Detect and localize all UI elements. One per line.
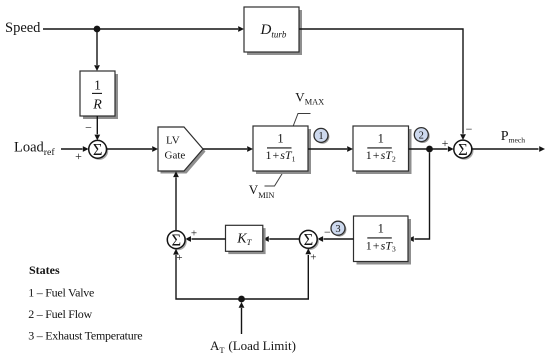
callout line V_MIN xyxy=(265,172,284,187)
svg-text:+: + xyxy=(191,227,197,239)
svg-text:Loadref: Loadref xyxy=(14,140,55,158)
state badge 2 xyxy=(414,128,429,143)
wire summer S1 to LV gate xyxy=(107,146,159,152)
svg-text:1: 1 xyxy=(378,131,384,145)
svg-text:LV: LV xyxy=(166,135,180,147)
svg-text:Σ: Σ xyxy=(304,230,314,249)
wire summer S3 to block KT xyxy=(263,236,299,242)
wire block T1 to block T2 xyxy=(308,146,353,152)
svg-text:1+sT2: 1+sT2 xyxy=(366,148,396,163)
junction dot load limit xyxy=(238,296,245,303)
svg-text:States: States xyxy=(29,263,60,277)
svg-text:Pmech: Pmech xyxy=(501,129,525,145)
svg-text:1: 1 xyxy=(94,78,101,93)
svg-text:2: 2 xyxy=(419,130,424,141)
svg-text:1: 1 xyxy=(378,221,384,235)
svg-text:2 – Fuel Flow: 2 – Fuel Flow xyxy=(28,307,92,321)
svg-text:AT(Load Limit): AT(Load Limit) xyxy=(210,338,296,355)
callout line V_MAX xyxy=(293,114,311,127)
svg-text:Speed: Speed xyxy=(5,20,41,36)
wire AT input up to rail xyxy=(239,302,245,334)
summer S2 xyxy=(454,140,474,160)
svg-text:+: + xyxy=(75,149,82,163)
block 1/(1+sT3) xyxy=(354,216,412,265)
wire Dturb to summer S2 xyxy=(299,29,466,140)
svg-text:Gate: Gate xyxy=(165,150,186,162)
wire load limit rail xyxy=(173,248,311,299)
block 1/R xyxy=(80,71,118,119)
svg-text:R: R xyxy=(92,98,102,113)
wire block T2 to summer S2 xyxy=(409,146,454,152)
junction dot speed branch xyxy=(94,26,101,33)
svg-text:3: 3 xyxy=(335,224,340,235)
wire 1/R to summer S1 xyxy=(94,116,100,140)
svg-text:1+sT3: 1+sT3 xyxy=(366,238,396,253)
svg-text:−: − xyxy=(466,122,473,136)
wire summer S2 to P_mech output xyxy=(472,146,545,152)
svg-text:3 – Exhaust Temperature: 3 – Exhaust Temperature xyxy=(28,328,142,342)
svg-text:1: 1 xyxy=(318,131,323,142)
summer S1 xyxy=(89,140,109,160)
wire fuel flow feedback down into block T3 xyxy=(408,152,430,242)
svg-text:VMIN: VMIN xyxy=(249,182,275,200)
svg-text:1: 1 xyxy=(277,131,283,145)
svg-text:+: + xyxy=(442,136,449,150)
svg-text:Σ: Σ xyxy=(171,231,181,250)
svg-text:+: + xyxy=(310,252,316,264)
svg-text:VMAX: VMAX xyxy=(295,89,324,106)
state badge 1 xyxy=(314,128,329,143)
svg-text:1 – Fuel Valve: 1 – Fuel Valve xyxy=(28,286,94,300)
svg-text:Σ: Σ xyxy=(93,140,103,159)
wire Speed to Dturb xyxy=(43,26,244,32)
block 1/(1+sT2) xyxy=(353,126,412,174)
svg-text:−: − xyxy=(324,225,331,239)
svg-text:1+sT1: 1+sT1 xyxy=(265,148,295,163)
wire block KT to summer S4 xyxy=(185,236,225,242)
block KT xyxy=(226,225,266,254)
wire Load_ref to summer S1 xyxy=(61,146,89,152)
state badge 3 xyxy=(331,221,346,236)
block 1/(1+sT1) xyxy=(253,126,311,174)
wire summer S4 up to LV gate xyxy=(173,171,179,230)
wire speed branch down to block 1/R xyxy=(94,29,100,71)
svg-text:−: − xyxy=(85,121,92,135)
wire block T3 to summer S3 xyxy=(317,236,353,242)
wire LV gate to block T1 xyxy=(203,146,253,152)
svg-text:Σ: Σ xyxy=(458,140,468,159)
summer S3 xyxy=(299,230,319,250)
summer S4 xyxy=(167,231,187,251)
block Dturb xyxy=(244,7,302,55)
block LV Gate xyxy=(158,127,206,174)
junction dot fuel flow xyxy=(426,146,433,153)
